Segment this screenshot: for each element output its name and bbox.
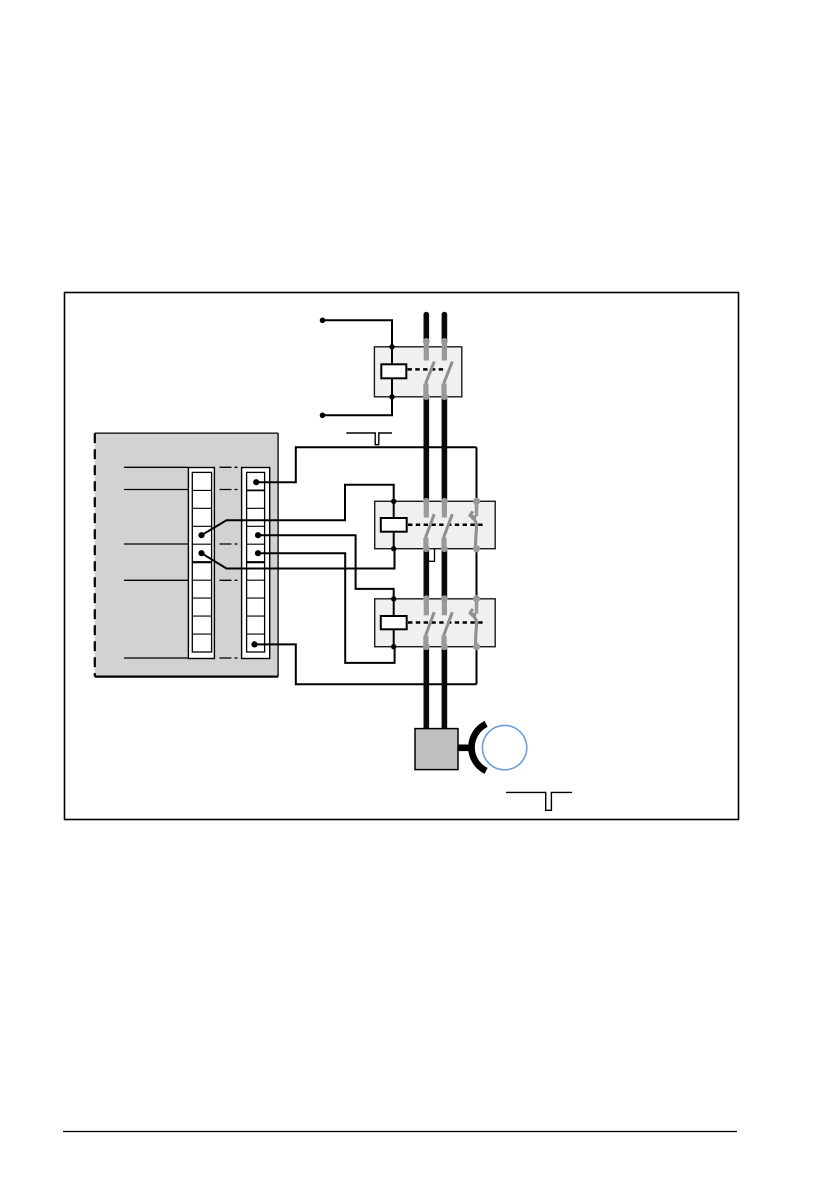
wire: X1 to contactor K2 coil top bbox=[202, 485, 394, 535]
contactor K1 coil bbox=[381, 347, 406, 397]
drive panel (gray enclosure) bbox=[95, 433, 278, 676]
contactor K3 box bbox=[375, 599, 496, 647]
contactor K3 coil bbox=[381, 599, 407, 647]
node X2:5 bbox=[255, 550, 261, 556]
contactor K2 box bbox=[375, 501, 496, 548]
panel signal line 2 bbox=[124, 489, 238, 491]
panel signal line 5 bbox=[124, 657, 238, 659]
wire: monitoring loop top (X2 to aux line) bbox=[256, 447, 476, 482]
panel signal line 4 bbox=[124, 579, 238, 581]
motor shaft stub bbox=[458, 744, 471, 751]
node X1:5 bbox=[198, 550, 204, 556]
K3 pole 2 contact bbox=[444, 599, 453, 647]
K3 coil node top bbox=[391, 596, 396, 601]
aux monitoring line bbox=[476, 447, 478, 684]
node X1:4 bbox=[198, 532, 204, 538]
terminal node upper bbox=[320, 318, 326, 324]
K2 coil node bottom bbox=[391, 546, 396, 551]
panel signal line 3 bbox=[124, 543, 238, 545]
K2 aux contact bbox=[470, 501, 477, 548]
K1 mechanical link (dashed) bbox=[408, 368, 447, 371]
K2 coil node top bbox=[391, 499, 396, 504]
K2 pole 2 contact bbox=[444, 501, 453, 548]
node X2:10 bbox=[251, 641, 257, 647]
wire: X2 to contactor K3 coil top bbox=[258, 535, 394, 599]
K2 terminal circles bbox=[423, 498, 480, 553]
K3 coil node bottom bbox=[391, 644, 396, 649]
K2 mechanical link (dashed) bbox=[408, 523, 485, 526]
footer rule bbox=[63, 1131, 737, 1133]
contactor K2 coil bbox=[381, 501, 407, 548]
K1 pole 2 contact bbox=[444, 341, 453, 396]
terminal node lower bbox=[320, 413, 326, 419]
node X2:4 bbox=[255, 532, 261, 538]
contactor K1 box bbox=[374, 347, 461, 397]
K3 mechanical link (dashed) bbox=[408, 621, 485, 624]
K2 interlock tab bbox=[429, 549, 435, 562]
wire: supply terminal to K1 coil bottom bbox=[323, 397, 393, 416]
K3 terminal circles bbox=[423, 595, 480, 650]
pulse symbol (stop) bbox=[506, 792, 572, 810]
wire: X2 to contactor K3 coil bottom bbox=[258, 553, 395, 663]
K1 terminal circles bbox=[423, 338, 448, 400]
diagram frame bbox=[65, 293, 739, 820]
K3 pole 1 contact bbox=[426, 599, 435, 647]
wire: monitoring loop bottom (aux line to X2) bbox=[255, 644, 477, 684]
node X2:1 bbox=[253, 479, 259, 485]
power line L2 bbox=[442, 315, 448, 730]
motor clamp arc bbox=[471, 724, 486, 771]
power line L1 bbox=[423, 315, 429, 730]
K1 coil node bottom bbox=[389, 394, 394, 399]
pulse symbol (start interlock) bbox=[346, 433, 392, 445]
motor terminal box bbox=[415, 729, 458, 770]
K2 pole 1 contact bbox=[426, 501, 435, 548]
wire: supply terminal to K1 coil top bbox=[323, 320, 393, 347]
K1 coil node top bbox=[389, 344, 394, 349]
motor circle bbox=[482, 725, 526, 769]
terminal block X1 bbox=[188, 468, 214, 659]
terminal block X2 bbox=[242, 468, 270, 659]
wire: X1 to contactor K2 coil bottom bbox=[202, 549, 395, 569]
panel signal line 1 bbox=[124, 466, 238, 468]
K1 pole 1 contact bbox=[426, 341, 435, 396]
K3 aux contact bbox=[470, 599, 477, 647]
